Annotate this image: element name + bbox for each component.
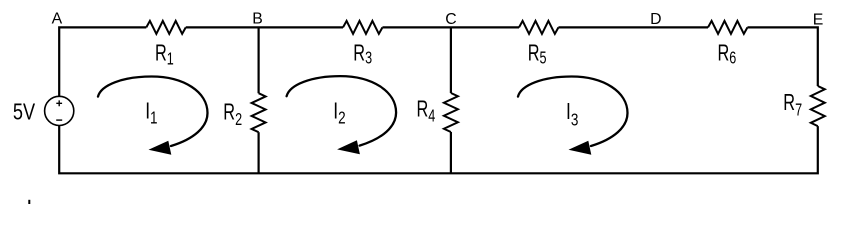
resistor R5 xyxy=(519,21,558,34)
resistor R6 xyxy=(708,21,747,34)
wire: left vertical + top rail A to R1 xyxy=(59,27,146,96)
wire: node C vertical (top rail to R4) xyxy=(450,27,452,93)
wire: top rail R1 to R3 (node B) xyxy=(186,26,343,28)
wire: node B vertical (top rail to R2) xyxy=(258,27,260,93)
svg-text:B: B xyxy=(252,10,263,27)
mesh current I3: arc arrow xyxy=(518,77,628,155)
wire: node C vertical (R4 to bottom rail) xyxy=(450,132,452,173)
svg-text:D: D xyxy=(650,11,661,28)
resistor R3 xyxy=(343,21,382,34)
svg-text:A: A xyxy=(52,10,63,27)
mesh current I2: arc arrow xyxy=(287,76,397,154)
svg-text:E: E xyxy=(813,12,824,29)
resistor R2 xyxy=(252,93,266,132)
wire: right vertical below R7 + bottom rail + left vertical below source xyxy=(59,125,818,173)
wire: node B vertical (R2 to bottom rail) xyxy=(258,132,260,173)
resistor R7 xyxy=(811,86,825,126)
stray cursor mark bottom-left xyxy=(28,200,30,204)
wire: top rail R5 to R6 (node D) xyxy=(558,26,708,28)
resistor R4 xyxy=(444,93,458,132)
wire: top rail R3 to R5 (node C) xyxy=(382,26,519,28)
wire: top rail R6 to node E + right vertical down to R7 xyxy=(747,27,817,86)
mesh current I1: arc arrow xyxy=(98,77,208,155)
voltage source V1: circle xyxy=(45,96,74,125)
voltage source V1: plus sign xyxy=(56,100,62,106)
resistor R1 xyxy=(146,21,185,34)
svg-text:C: C xyxy=(445,11,456,28)
voltage source V1: minus sign xyxy=(56,119,62,121)
svg-text:5V: 5V xyxy=(13,100,35,126)
